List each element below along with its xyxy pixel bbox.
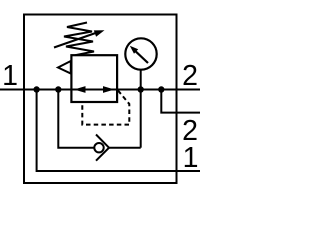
check valve V1 ball	[94, 143, 103, 152]
wire: drop from dot A to bottom port 1 line	[37, 90, 200, 172]
pilot line (dashed)	[82, 91, 129, 125]
flow arrowhead left (inside regulator)	[74, 86, 86, 93]
spring (zigzag)	[64, 23, 94, 56]
wire: drop from dot D to lower port 2 line	[161, 90, 200, 113]
junction dot A	[33, 86, 39, 92]
enclosure frame	[24, 15, 177, 184]
wire: check valve to riser	[109, 147, 141, 149]
wire: gauge stem	[140, 70, 142, 90]
wire: main line port 1 to port 2	[0, 89, 200, 91]
wire: riser from check valve line to dot C	[140, 90, 142, 148]
adjustment arrow shaft through spring	[54, 33, 97, 48]
wire: drop from dot B to check valve line	[58, 90, 93, 148]
regulator valve body U1	[71, 55, 117, 102]
junction dot D	[158, 86, 164, 92]
gauge needle head	[130, 46, 138, 54]
svg-text:1: 1	[183, 142, 199, 174]
junction dot C	[138, 86, 144, 92]
check valve seat	[96, 135, 109, 161]
gauge needle shaft	[135, 50, 149, 63]
adjustment arrow head	[94, 30, 105, 37]
svg-text:2: 2	[182, 60, 198, 92]
pressure gauge G1 body	[125, 38, 156, 69]
svg-text:1: 1	[2, 60, 18, 92]
junction dot B	[55, 86, 61, 92]
flow arrowhead right (inside regulator)	[103, 86, 115, 93]
adjustment triangle (open, on left of valve)	[58, 61, 71, 74]
